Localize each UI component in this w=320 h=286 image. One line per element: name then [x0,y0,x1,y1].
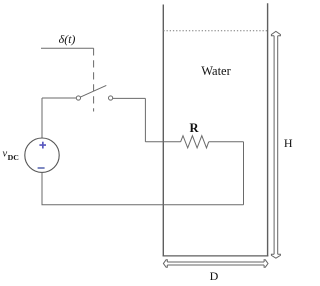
resistor R zigzag [181,136,209,148]
water tank right wall [267,3,269,256]
delta bracket horizontal line [41,47,94,49]
wire: source bottom down [41,172,43,204]
dimension arrow H shaft [271,31,280,258]
dashed actuation line [93,48,95,111]
H bottom arrowhead [271,254,280,258]
wire: resistor right lead [209,141,244,143]
svg-text:Water: Water [201,64,231,78]
wire: down to resistor row [144,98,146,141]
water surface dotted line [163,30,267,32]
wire: switch right lead [113,97,146,99]
switch right terminal [109,96,113,100]
D right arrowhead [264,260,268,267]
svg-text:D: D [210,269,219,283]
wire: bottom return [42,204,244,206]
svg-text:H: H [284,136,293,150]
dimension arrow D shaft [163,260,268,267]
D left arrowhead [163,260,167,267]
wire: left rail down to source [41,98,43,138]
water tank bottom [163,255,269,257]
svg-text:R: R [189,121,199,135]
wire: right side up [243,142,245,205]
minus sign [38,167,45,169]
wire: resistor left lead [145,141,180,143]
water tank left wall [162,5,164,257]
svg-text:DC: DC [8,153,20,162]
switch left terminal [76,96,80,100]
svg-text:δ(t): δ(t) [59,32,76,46]
switch blade [80,85,106,97]
wire: switch left lead [42,97,76,99]
plus sign [39,142,46,149]
H top arrowhead [271,31,280,35]
voltage source circle [25,138,59,172]
